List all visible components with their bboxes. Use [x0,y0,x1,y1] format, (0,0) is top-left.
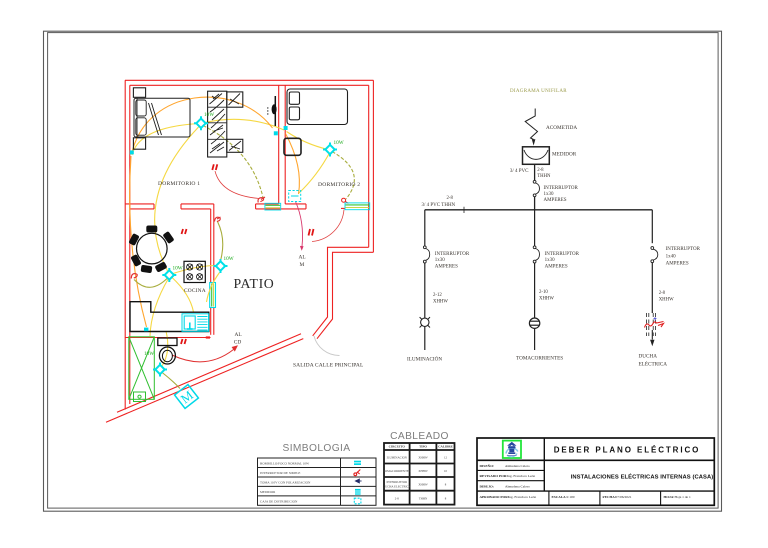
svg-text:BOMBILLO/FOCO NORMAL 10W: BOMBILLO/FOCO NORMAL 10W [260,462,310,466]
svg-text:PATIO: PATIO [234,276,275,291]
wire yellow dorm2 light to switch [299,152,330,193]
stove cocina [184,261,205,282]
svg-text:CALIBRE: CALIBRE [438,445,453,449]
svg-text:SALIDA CALLE PRINCIPAL: SALIDA CALLE PRINCIPAL [293,363,364,369]
symbol interruptor simple [354,470,360,476]
svg-text:SIMBOLOGIA: SIMBOLOGIA [283,443,351,454]
svg-text:10W: 10W [224,256,234,262]
svg-text:10W: 10W [144,351,154,357]
svg-text:HOJA:: HOJA: [664,495,675,499]
wire orange dorm1 socket over bed [132,97,273,152]
wire red to AL CD arrow [172,350,234,362]
svg-text:DISEÑO:: DISEÑO: [480,463,495,468]
border frame inner [48,33,719,509]
wall kitchen right upper [210,209,212,282]
svg-text:DUCHA ELECTRICA: DUCHA ELECTRICA [383,485,412,489]
svg-text:FECHA:: FECHA: [603,495,616,499]
wire olive wall switch to kitchen light [134,278,168,288]
main breaker [533,180,539,196]
svg-text:Almudena Calero: Almudena Calero [505,464,530,468]
svg-text:CABLEADO: CABLEADO [390,431,449,442]
switch hook red dorm1 door [258,197,265,203]
svg-text:AMPERES: AMPERES [545,265,568,270]
sink unit [182,314,209,332]
cableado cell texts [383,456,448,501]
svg-text:DIAGRAMA UNIFILAR: DIAGRAMA UNIFILAR [510,89,567,94]
wall rooms bottom segment a [125,203,154,205]
cableado header texts [389,445,453,449]
bed dorm1 body [134,98,190,137]
branch 2 wire end [534,328,536,350]
door hinge mark dorm2 [342,198,346,202]
svg-text:CIRCUITO: CIRCUITO [389,445,406,449]
wall patio fence outer [317,252,373,338]
bed dorm2 pillow 2 [289,107,299,120]
svg-text:2-8: 2-8 [659,291,666,296]
svg-text:INTERRUPTOR: INTERRUPTOR [544,186,579,191]
symbol medidor [355,489,361,495]
tv on divider wall [267,96,277,126]
switch hook red dining wall [131,274,137,279]
shower green [129,337,155,402]
svg-text:2-12: 2-12 [433,293,442,298]
svg-text:Ing. Francisco León: Ing. Francisco León [508,495,536,499]
branch 3 wire to arrow [651,330,653,340]
door swing arc dorm2 [312,210,344,242]
svg-text:XHHW: XHHW [418,483,427,487]
svg-text:DUCHA: DUCHA [639,354,658,360]
bus line [425,209,653,211]
svg-text:AMPERES: AMPERES [666,262,689,267]
svg-text:TOMACORRIENTES: TOMACORRIENTES [516,356,563,362]
svg-text:XHHW: XHHW [433,300,448,305]
door leaf kitchen-patio [210,283,216,308]
door leaf dorm2 [345,203,370,210]
svg-text:INTERRUPTOR: INTERRUPTOR [666,247,701,252]
symbol caja distribucion [354,498,361,504]
lamp symbol [420,317,430,327]
svg-text:ESCALA:: ESCALA: [552,495,567,499]
svg-text:ELÉCTRICA: ELÉCTRICA [639,360,668,368]
wire yellow dorm1 light to divider socket [203,119,284,130]
title block small texts [480,463,691,499]
svg-text:2-10: 2-10 [539,290,548,295]
branch 3 wire lower [651,263,653,313]
svg-text:3/ 4 PVC: 3/ 4 PVC [510,169,529,174]
wall right dorm2 outer [372,80,374,252]
svg-text:2-8: 2-8 [447,196,454,201]
simbologia table grid [258,458,377,505]
title block grid [477,438,714,505]
wall diagonal outer [106,339,303,423]
border frame outer [44,31,722,511]
branch 1 breaker [423,246,429,263]
switch mark red patio [309,229,314,236]
socket S2 divider wall [274,131,278,135]
svg-text:XHHW: XHHW [659,298,674,303]
svg-text:07/06/2021: 07/06/2021 [616,495,632,499]
medidor box [523,147,550,165]
svg-text:1x30: 1x30 [544,192,555,197]
nightstand dorm2 [284,138,301,155]
svg-text:INTERRUPTOR DE SIMPLE: INTERRUPTOR DE SIMPLE [260,471,300,475]
svg-text:DEBER PLANO ELÉCTRICO: DEBER PLANO ELÉCTRICO [554,446,701,455]
svg-text:Almudena Calero: Almudena Calero [505,484,530,488]
wall top outer [125,79,373,81]
svg-text:ACOMETIDA: ACOMETIDA [546,125,577,131]
ceiling light L2 dorm2 [323,143,337,157]
svg-text:TIPO: TIPO [419,445,427,449]
branch 2 wire upper [534,210,536,246]
bed dorm2 pillow 1 [289,92,299,104]
svg-text:1x30: 1x30 [435,258,446,263]
bed dorm1 nightstand bottom [133,138,145,149]
wardrobe hatch strokes [210,94,242,154]
bed dorm2 body [287,89,348,125]
svg-text:COCINA: COCINA [184,288,206,294]
svg-text:DIBUJO:: DIBUJO: [480,484,494,488]
door swing arc dorm1 red [215,171,259,199]
wall patio fence inner [313,247,369,335]
svg-text:XHHW: XHHW [539,297,554,302]
symbol toma 110v [354,478,359,483]
svg-text:1x40: 1x40 [666,255,677,260]
wardrobe tall body [208,91,227,157]
svg-text:M: M [300,262,305,268]
bed dorm1 pillow 1 [136,100,146,116]
svg-text:INTERRUPTOR: INTERRUPTOR [435,252,470,257]
socket S1 left wall [130,150,134,154]
symbol bombillo [354,461,361,465]
svg-text:XHHW: XHHW [418,456,427,460]
wall divider dorm1-dorm2 [278,85,280,204]
svg-text:TOMACORRIENTES: TOMACORRIENTES [383,469,411,473]
tick on bus [463,207,465,213]
ceiling light L5 bath [153,363,167,377]
ducha electrica symbol [645,313,664,336]
door leaf dorm1 [265,203,281,210]
svg-text:10W: 10W [173,266,183,272]
wall right dorm2 inner [368,85,370,247]
wall top inner [130,84,369,86]
wall left inner [129,85,131,404]
wire orange dorm2 socket to switch [286,134,300,195]
svg-text:2-8: 2-8 [537,168,544,173]
wall left outer [124,80,126,409]
svg-text:ILUMINACION: ILUMINACION [387,456,408,460]
logo [503,441,521,458]
branch 1 wire upper [424,210,426,246]
svg-text:Ing. Francisco León: Ing. Francisco León [507,474,535,478]
wire yellow kitchen light to sink [172,277,194,312]
bed dorm1 fold lines [149,103,159,135]
branch 3 wire upper [651,210,653,243]
simbologia row texts [260,462,311,504]
svg-text:10W: 10W [204,112,214,118]
bed dorm1 nightstand top [133,88,145,98]
wall diagonal inner [117,334,301,413]
switch dorm2 (dashed box) [289,191,301,202]
wire yellow kitchen light to counter [150,278,169,337]
svg-text:INSTALACIONES ELÉCTRICAS INTER: INSTALACIONES ELÉCTRICAS INTERNAS (CASA) [571,472,714,480]
wire medidor to main breaker [534,164,536,180]
door swing arc entrance (faint) [314,336,340,356]
ceiling light L1 dorm1 [194,116,208,130]
cableado table grid [384,443,455,505]
svg-text:AMPERES: AMPERES [435,265,458,270]
branch 2 breaker [533,246,539,263]
acometida zigzag [525,109,537,140]
socket S3 dorm2 wall [284,126,288,130]
svg-text:THHN: THHN [537,174,551,179]
switch mark red bath [181,339,186,344]
svg-text:10: 10 [444,469,448,473]
wardrobe top-right box [227,92,243,107]
wire yellow counter to bath light [162,331,168,366]
svg-text:INTERRUPTOR: INTERRUPTOR [386,480,407,484]
svg-text:THHN: THHN [419,497,428,501]
wire yellow dorm1 light to kitchen light [155,126,200,273]
wire orange left side down [130,156,147,327]
wire olive bath light to washer [162,372,181,389]
wall rooms bottom segment c [256,203,279,205]
svg-text:DORMITORIO 2: DORMITORIO 2 [318,182,360,188]
branch 2 wire lower [534,263,536,318]
wire yellow kitchen light to patio light [172,266,215,275]
switch mark red dining [182,229,187,234]
svg-text:CD: CD [234,340,242,346]
wire olive dorm2 light to door [332,152,354,200]
svg-text:REVISADO POR:: REVISADO POR: [480,474,508,478]
dining table [128,226,174,274]
wall kitchen bottom [125,337,210,339]
wire olive dorm1 light to door [203,126,263,198]
counter socket [144,328,148,332]
toilet [158,338,177,364]
svg-text:ILUMINACIÓN: ILUMINACIÓN [407,355,442,363]
svg-text:APROBADO POR:: APROBADO POR: [480,495,509,499]
svg-text:3/ 4 PVC THHN: 3/ 4 PVC THHN [422,203,456,208]
wire red switch to AL M arrow [296,202,303,247]
wire yellow dorm2 socket to light [287,132,329,150]
svg-text:AMPERES: AMPERES [544,198,567,203]
ceiling light L4 patio [214,259,228,273]
svg-text:CAJA DE DISTRIBUCION: CAJA DE DISTRIBUCION [260,500,298,504]
svg-text:INTERRUPTOR: INTERRUPTOR [545,252,580,257]
wire main breaker to bus [534,197,536,210]
wall rooms bottom segment d (stub left of dorm2 leaf) [341,207,345,209]
washing machine [175,385,199,409]
wardrobe bottom-right box [227,139,243,152]
wall rooms bottom segment b [181,203,214,205]
svg-text:10W: 10W [334,140,344,146]
svg-text:1x30: 1x30 [545,258,556,263]
svg-text:XHHW: XHHW [418,469,427,473]
svg-text:2-8: 2-8 [395,497,399,501]
branch 3 breaker [651,247,658,263]
outlet symbol [529,318,539,328]
wall kitchen right lower [210,308,212,335]
kitchen counter [130,302,209,332]
svg-text:AL: AL [235,332,242,338]
switch hook red patio wall [215,217,221,222]
svg-text:MEDIDOR: MEDIDOR [552,152,577,158]
svg-text:Hoja 1 de 1: Hoja 1 de 1 [675,495,691,499]
branch 1 wire lower [424,263,426,318]
svg-text:1:100: 1:100 [567,495,575,499]
switch mark red dorm1 [212,164,217,170]
ceiling light L3 kitchen [162,268,176,282]
svg-text:AL: AL [299,255,306,261]
svg-text:DORMITORIO 1: DORMITORIO 1 [158,181,200,187]
wire yellow dorm1 socket to light [132,124,199,156]
wire yellow patio light to kitchen door [207,273,220,303]
branch 1 wire end [424,327,426,351]
svg-text:TOMA 110V CON POLARIZACION: TOMA 110V CON POLARIZACION [260,481,311,485]
svg-text:MEDIDOR: MEDIDOR [260,490,276,494]
wire olive patio light to door [218,222,223,260]
svg-text:12: 12 [444,456,448,460]
bed dorm1 pillow 2 [136,118,146,135]
